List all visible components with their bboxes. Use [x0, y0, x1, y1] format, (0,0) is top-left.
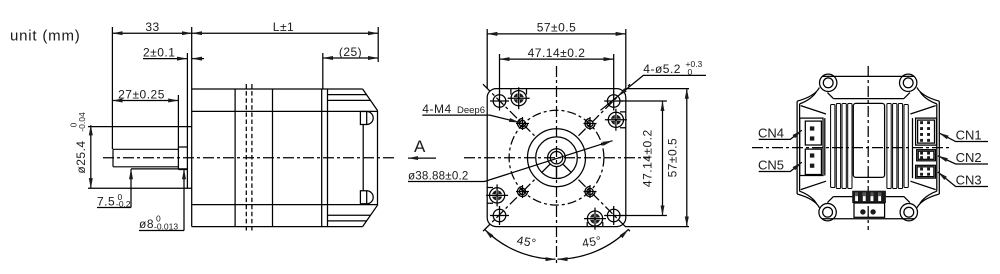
ear TR	[900, 74, 917, 91]
svg-text:CN4: CN4	[758, 126, 784, 141]
corner hole BR	[604, 206, 623, 225]
motor section line	[272, 89, 274, 227]
svg-text:ø8: ø8	[139, 217, 154, 231]
leader CN3	[938, 172, 988, 187]
dim 33	[111, 27, 113, 149]
svg-text:ø38.88±0.2: ø38.88±0.2	[408, 170, 469, 183]
base plate edges	[825, 118, 913, 178]
svg-text:33: 33	[145, 20, 159, 34]
pilot circles	[528, 129, 586, 187]
shaft shoulder	[178, 147, 187, 170]
shaft	[113, 149, 178, 167]
svg-text:(25): (25)	[339, 45, 362, 59]
svg-text:0: 0	[688, 67, 693, 77]
svg-text:ø25.4: ø25.4	[74, 140, 88, 173]
svg-text:A: A	[414, 137, 426, 156]
svg-text:-0.013: -0.013	[154, 222, 178, 232]
tapped hole M4 BR	[584, 185, 597, 198]
dim 7.5 leader	[130, 169, 132, 207]
rear cover outline	[797, 76, 939, 218]
connector CN5	[805, 149, 821, 174]
DIP switch block	[852, 191, 886, 203]
45 deg diagonal centerlines	[483, 84, 630, 231]
clamp hole bottom	[584, 208, 606, 230]
svg-text:L±1: L±1	[273, 20, 294, 34]
label dia25.4	[69, 112, 89, 174]
rear screw bottom	[360, 191, 373, 204]
rear screw top	[360, 112, 373, 125]
rear cap face edge	[362, 125, 364, 191]
rear cap step lines	[328, 95, 371, 221]
front flange square	[487, 89, 626, 227]
centerline horizontal rear	[752, 147, 952, 149]
pilot boss	[88, 127, 192, 189]
shaft flat line	[131, 168, 187, 170]
svg-text:7.5: 7.5	[97, 195, 115, 209]
dim 27	[177, 95, 179, 147]
svg-text:57±0.5: 57±0.5	[666, 138, 680, 178]
tapped hole M4 BL	[516, 185, 529, 198]
rear housing joint	[322, 89, 328, 227]
clamp hole right	[605, 109, 627, 131]
dim dia25.4	[90, 125, 92, 188]
corner hole TL	[490, 92, 509, 111]
ear TL	[820, 74, 837, 91]
inner wall right	[920, 92, 937, 204]
leader CN2	[938, 156, 988, 164]
spokes	[542, 164, 571, 179]
tapped hole M4 TR	[584, 117, 597, 130]
leader dia5.2	[601, 75, 707, 110]
svg-text:CN1: CN1	[956, 128, 982, 143]
clamp hole top	[508, 87, 530, 109]
svg-text:CN3: CN3	[956, 173, 982, 188]
motor body outline	[192, 27, 363, 227]
svg-text:CN5: CN5	[758, 158, 784, 173]
leader CN5	[759, 162, 802, 171]
rear cap chamfers	[363, 89, 378, 227]
leader CN4	[759, 130, 802, 139]
gearbox joint line	[234, 89, 236, 227]
wing diagonal TL	[801, 106, 826, 114]
dim 2	[186, 53, 188, 127]
dim dia8 leader	[183, 169, 185, 230]
svg-text:4-ø5.2: 4-ø5.2	[643, 62, 681, 76]
centerline vertical rear	[867, 66, 869, 230]
svg-text:2±0.1: 2±0.1	[143, 46, 175, 60]
angle arc right	[558, 230, 629, 260]
svg-text:57±0.5: 57±0.5	[537, 21, 577, 35]
svg-text:47.14±0.2: 47.14±0.2	[528, 46, 586, 60]
hidden screw lines	[246, 84, 252, 232]
connector CN2	[917, 150, 936, 161]
leader CN1	[939, 133, 988, 142]
tapped hole M4 TL	[516, 117, 529, 130]
wing diagonal BR	[910, 181, 935, 189]
connector housing left	[800, 118, 823, 175]
svg-text:45°: 45°	[581, 233, 603, 250]
svg-text:4-M4: 4-M4	[422, 102, 451, 116]
svg-text:-0.04: -0.04	[77, 112, 87, 132]
leader dia38.88	[408, 141, 613, 182]
angle arc left	[485, 230, 556, 260]
shaft circles	[548, 149, 566, 167]
dim 47.14 vertical	[621, 101, 667, 216]
wing diagonal BL	[801, 181, 826, 189]
svg-text:-0.2: -0.2	[116, 199, 131, 209]
dim 57 vertical	[626, 89, 689, 227]
svg-text:unit (mm): unit (mm)	[10, 28, 81, 45]
heatsink bottom line	[827, 197, 910, 203]
dim L	[192, 32, 378, 34]
dim 47.14 horizontal	[500, 54, 614, 93]
inner wall left	[800, 92, 817, 204]
wing diagonal TR	[910, 106, 935, 114]
view arrow A	[408, 157, 436, 159]
ear BL	[819, 204, 836, 221]
svg-text:47.14±0.2: 47.14±0.2	[641, 129, 655, 187]
chamfer silhouette lines	[192, 111, 378, 204]
dim 25	[322, 53, 324, 89]
centerline vertical front	[556, 66, 558, 264]
svg-text:45°: 45°	[516, 233, 538, 250]
heatsink fins right	[887, 104, 908, 189]
clamp hole left	[486, 184, 508, 206]
dim 57 horizontal	[487, 29, 626, 88]
svg-text:Deep6: Deep6	[457, 105, 485, 116]
connector CN1	[916, 118, 937, 145]
svg-text:CN2: CN2	[956, 150, 982, 165]
connector CN4	[805, 121, 821, 145]
leader M4	[422, 115, 519, 122]
ear BR	[900, 204, 917, 221]
connector CN3	[916, 165, 936, 178]
label plate	[853, 103, 884, 177]
centerline horizontal front	[464, 157, 650, 159]
corner hole TR	[604, 92, 623, 111]
button plate	[854, 203, 885, 217]
heatsink fins left	[831, 104, 852, 189]
bolt circle dia38.88	[509, 110, 604, 205]
wire centerline side view	[103, 157, 395, 159]
heatsink top line	[827, 93, 910, 99]
corner hole BL	[490, 206, 509, 225]
svg-text:27±0.25: 27±0.25	[118, 87, 165, 101]
